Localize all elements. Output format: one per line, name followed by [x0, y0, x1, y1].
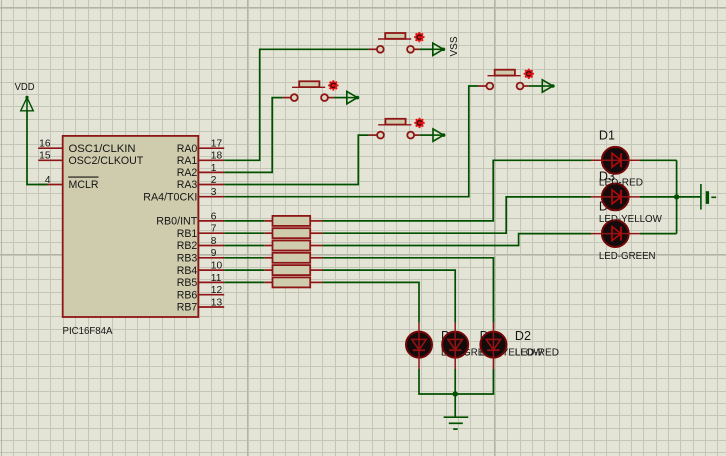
wire R4 (RB3) to LED D2 [323, 258, 494, 323]
U1 pin 9 RB3 [177, 248, 225, 264]
wire U1 RB4 to resistor R5 [224, 269, 264, 271]
wire bus to battery BT1 [677, 196, 701, 198]
wire U1 RB5 to resistor R6 [224, 281, 264, 283]
U1 pin 12 RB6 [177, 285, 225, 301]
svg-text:RB2: RB2 [177, 240, 198, 252]
U1 pin 13 RB7 [177, 297, 225, 313]
wire U1 RB2 to resistor R3 [224, 245, 264, 247]
wire U1 RB0 to resistor R1 [224, 220, 264, 222]
U1 pin 10 RB4 [177, 261, 225, 277]
svg-text:13: 13 [211, 297, 223, 308]
svg-text:VDD: VDD [15, 82, 35, 93]
svg-text:RA4/T0CKI: RA4/T0CKI [143, 191, 197, 203]
resistor R4 (RB3 line) [264, 253, 322, 263]
wire SW3 to power terminal [529, 85, 542, 87]
svg-text:RA2: RA2 [177, 167, 198, 179]
svg-text:RA3: RA3 [177, 179, 198, 191]
svg-text:OSC2/CLKOUT: OSC2/CLKOUT [69, 155, 144, 167]
svg-text:RA1: RA1 [177, 155, 198, 167]
svg-text:15: 15 [39, 151, 51, 162]
svg-text:2: 2 [211, 175, 217, 186]
push button SW4 [369, 118, 425, 139]
wire LED D3 cathode to bus [640, 196, 677, 198]
U1 pin 6 RB0/INT [156, 211, 224, 227]
svg-text:7: 7 [211, 224, 217, 235]
U1 pin 16 OSC1/CLKIN [38, 139, 135, 155]
U1 pin 1 RA2 [177, 163, 225, 179]
svg-text:3: 3 [211, 187, 217, 198]
wire LED D2 cathode down [455, 369, 493, 394]
svg-text:D2: D2 [515, 329, 531, 343]
resistor R2 (RB1 line) [264, 228, 322, 238]
wire SW1 to U1 RA1 [224, 49, 368, 160]
wire SW2 to power terminal [333, 97, 346, 99]
U1 pin 18 RA1 [177, 151, 225, 167]
resistor R3 (RB2 line) [264, 241, 322, 251]
ground symbol [444, 417, 469, 429]
wire LED D5 cathode down [419, 369, 455, 394]
resistor R6 (RB5 line) [264, 277, 322, 287]
wire R1 (RB0) to LED D1 [323, 160, 591, 221]
svg-text:MCLR: MCLR [69, 179, 99, 191]
power terminal VSS (SW1) [432, 43, 445, 55]
wire LED D6 cathode to ground [454, 369, 456, 417]
svg-text:11: 11 [211, 273, 222, 284]
U1 pin 11 RB5 [177, 273, 225, 289]
U1 pin 3 RA4/T0CKI [143, 187, 224, 203]
svg-text:VSS: VSS [449, 36, 460, 56]
svg-text:16: 16 [39, 139, 51, 150]
svg-text:17: 17 [211, 139, 223, 150]
U1 pin 2 RA3 [177, 175, 225, 191]
svg-text:RB6: RB6 [177, 289, 198, 301]
svg-text:10: 10 [211, 261, 223, 272]
LED D5 [406, 323, 498, 369]
wire SW3 to U1 RA4/T0CKI [224, 86, 478, 197]
svg-text:PIC16F84A: PIC16F84A [63, 326, 113, 337]
wire R6 (RB5) to LED D5 [323, 282, 419, 322]
push button SW2 [283, 80, 339, 101]
svg-text:RB3: RB3 [177, 253, 198, 265]
LED D6 [442, 323, 543, 369]
U1 pin 17 RA0 [177, 139, 225, 155]
wire cathode bus right [676, 160, 678, 233]
U1 pin 15 OSC2/CLKOUT [38, 151, 144, 167]
svg-text:LED-YELLOW: LED-YELLOW [599, 214, 663, 225]
U1 pin 8 RB2 [177, 236, 225, 252]
svg-text:D1: D1 [599, 128, 615, 142]
power terminal (SW4) [433, 129, 446, 141]
IC U1 PIC16F84A body [63, 136, 199, 317]
svg-text:RA0: RA0 [177, 143, 198, 155]
power terminal (SW3) [542, 80, 555, 92]
svg-text:RB1: RB1 [177, 228, 198, 240]
wire R2 (RB1) to LED D3 yellow [323, 197, 591, 233]
svg-text:OSC1/CLKIN: OSC1/CLKIN [69, 143, 136, 155]
wire U1 RB1 to resistor R2 [224, 232, 264, 234]
LED D1 (red) [591, 128, 643, 188]
wire SW4 to power terminal [420, 134, 433, 136]
svg-text:RB4: RB4 [177, 265, 198, 277]
label VSS [449, 36, 460, 56]
power terminal VDD [15, 82, 35, 111]
push button SW1 [369, 32, 425, 53]
svg-text:RB7: RB7 [177, 302, 198, 314]
svg-text:LED-RED: LED-RED [599, 178, 643, 189]
wire VDD to U1 MCLR pin 4 [27, 110, 48, 185]
LED D3 (yellow) [591, 169, 662, 225]
LED D4 (green) [591, 199, 656, 262]
power terminal (SW2) [346, 91, 359, 103]
battery BT1 [701, 184, 716, 210]
svg-text:RB0/INT: RB0/INT [156, 216, 198, 228]
svg-text:LED-RED: LED-RED [515, 347, 559, 358]
svg-text:RB5: RB5 [177, 277, 198, 289]
wire SW2 to U1 RA2 [224, 98, 282, 173]
wire R5 (RB4) to LED D6 [323, 270, 456, 323]
svg-text:9: 9 [211, 248, 217, 259]
resistor R5 (RB4 line) [264, 265, 322, 275]
svg-text:12: 12 [211, 285, 223, 296]
svg-text:1: 1 [211, 163, 217, 174]
wire LED D1 cathode to bus [640, 159, 677, 161]
wire SW1 to VSS terminal [419, 48, 432, 50]
LED D2 [480, 323, 559, 369]
U1 pin 4 MCLR [38, 175, 99, 191]
push button SW3 [478, 69, 534, 90]
wire U1 RB3 to resistor R4 [224, 257, 264, 259]
U1 pin 7 RB1 [177, 224, 225, 240]
resistor R1 (RB0 line) [264, 216, 322, 226]
wire R3 (RB2) to LED D4 green [323, 234, 591, 246]
junction bus node [674, 194, 679, 199]
svg-text:18: 18 [211, 151, 223, 162]
svg-text:8: 8 [211, 236, 217, 247]
svg-text:6: 6 [211, 211, 217, 222]
U1 label PIC16F84A [63, 326, 113, 337]
wire SW4 to U1 RA3 [224, 135, 369, 184]
wire LED D4 cathode to bus [640, 233, 677, 235]
junction ground node [453, 391, 458, 396]
svg-text:LED-GREEN: LED-GREEN [599, 251, 656, 262]
